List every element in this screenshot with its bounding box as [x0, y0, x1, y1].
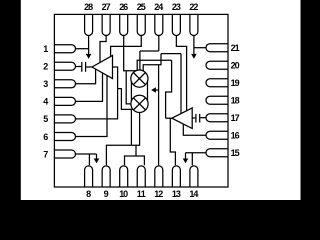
pin 22 pill: [190, 14, 198, 35]
wire pin6 to U1 bottom edge: [76, 76, 107, 137]
wire pin22 down to arrow: [193, 36, 195, 55]
arrow head down near pin8: [94, 159, 100, 164]
pin 18 pill: [206, 96, 228, 104]
svg-text:6: 6: [43, 132, 48, 142]
wire pin7 run with branch to pin8: [76, 154, 97, 165]
wire pin3 to U1 bottom edge: [76, 69, 96, 84]
svg-text:20: 20: [231, 61, 240, 71]
pin 20 pill: [206, 61, 228, 69]
pin 23 pill: [172, 14, 180, 35]
wire pin24 net to M1 top and U2 top: [140, 36, 181, 114]
svg-text:18: 18: [231, 96, 240, 106]
wire branch pin26 to M2 left: [126, 71, 131, 104]
svg-text:16: 16: [231, 131, 240, 141]
wire M2 bottom to pin9: [106, 113, 139, 166]
mixer M2 circle: [131, 95, 148, 112]
wire ladder connector: [135, 145, 137, 156]
pin 8 pill: [85, 166, 93, 187]
pin 26 pill: [120, 14, 128, 35]
wire pin2 to capacitor C1: [76, 66, 81, 68]
svg-text:25: 25: [137, 2, 146, 12]
wire pin4 to U1 bottom edge: [76, 73, 103, 101]
chip body outline: [54, 14, 228, 187]
svg-text:27: 27: [102, 2, 111, 12]
pin 2 pill: [54, 62, 75, 70]
svg-text:23: 23: [172, 2, 181, 12]
pin 15 pill: [206, 149, 228, 157]
svg-text:13: 13: [172, 189, 181, 199]
mixer M1 cross: [133, 73, 145, 85]
wire pin25 to U1 top corner: [111, 36, 142, 57]
svg-text:21: 21: [231, 43, 240, 53]
pin 10 pill: [120, 166, 128, 187]
svg-text:24: 24: [154, 2, 163, 12]
capacitor C2 wire from U2 right edge: [192, 117, 195, 119]
pin 28 pill: [85, 14, 93, 35]
mixer M1 circle: [131, 70, 148, 87]
wire C2 to pin17: [200, 117, 206, 119]
svg-text:4: 4: [43, 97, 48, 107]
pin 21 pill: [206, 44, 228, 52]
wire pin15 run with branch to pin14: [186, 153, 207, 166]
op-amp U1 (left amplifier, points left): [92, 55, 113, 78]
wire pin23 to U2 top edge: [176, 36, 186, 111]
wire U2 bottom edge to pin16: [183, 124, 206, 135]
svg-text:26: 26: [119, 2, 128, 12]
pin 3 pill: [54, 80, 75, 88]
pin 13 pill: [172, 166, 180, 187]
mixer tangent right: [147, 82, 149, 101]
wire branch to mixer M2 left lower: [118, 89, 133, 110]
svg-text:11: 11: [137, 189, 146, 199]
svg-text:1: 1: [43, 44, 48, 54]
wire C1 to amp U1 apex: [86, 66, 92, 68]
svg-text:2: 2: [43, 62, 48, 72]
mixer M2 cross: [133, 98, 145, 110]
wire pin26 to M1 left: [124, 36, 136, 71]
svg-text:28: 28: [84, 2, 93, 12]
capacitor C1 plates: [82, 62, 86, 72]
svg-text:15: 15: [231, 148, 240, 158]
pin 5 pill: [54, 115, 75, 123]
wire pin27 to U1 top edge: [100, 36, 106, 63]
wire U2 apex loop to M1 top left: [137, 60, 171, 118]
svg-text:10: 10: [119, 189, 128, 199]
svg-text:22: 22: [189, 2, 198, 12]
pin 14 pill: [190, 166, 198, 187]
pin 1 pill: [54, 45, 75, 53]
wire U2 apex down to pin13: [170, 118, 175, 165]
pin 25 pill: [137, 14, 145, 35]
arrow head down near pin14: [183, 159, 189, 164]
pin 27 pill: [102, 14, 110, 35]
arrow head input right (pins 21/22): [191, 54, 197, 59]
pin 24 pill: [155, 14, 163, 35]
wire pin21 to node B: [194, 47, 206, 49]
op-amp U2 (right amplifier, points left): [172, 108, 192, 129]
wire arrow stem near pin8: [96, 154, 98, 159]
arrow head input left (pins 1/28): [86, 54, 92, 59]
mixer tangent left: [130, 82, 132, 101]
pin 4 pill: [54, 97, 75, 105]
pin 16 pill: [206, 131, 228, 139]
wire pin28 down to arrow: [88, 36, 90, 55]
pin 12 pill: [155, 166, 163, 187]
pin 17 pill: [206, 114, 228, 122]
arrow head LO pointing left: [151, 87, 156, 92]
svg-text:17: 17: [231, 113, 240, 123]
svg-text:7: 7: [43, 149, 48, 159]
wire U2 apex stub: [166, 117, 172, 119]
svg-text:14: 14: [189, 189, 198, 199]
wire LO loop M1 top right and pin12 feeder: [143, 65, 161, 166]
wire U1 right edge to pin5: [76, 67, 118, 119]
capacitor C2 plates: [196, 114, 200, 123]
wire pin10 to pin11 ladder rung: [125, 156, 145, 165]
pin 7 pill: [54, 150, 75, 158]
svg-text:19: 19: [231, 78, 240, 88]
pin 19 pill: [206, 79, 228, 87]
pin 6 pill: [54, 132, 75, 140]
svg-text:5: 5: [43, 114, 48, 124]
svg-text:3: 3: [43, 79, 48, 89]
pin 9 pill: [102, 166, 110, 187]
svg-text:9: 9: [104, 189, 109, 199]
white content area: [21, 0, 301, 200]
wire pin1 to node A: [76, 48, 89, 50]
svg-text:12: 12: [154, 189, 163, 199]
svg-text:8: 8: [86, 189, 91, 199]
pin 11 pill: [137, 166, 145, 187]
wire riser M2 lower-left to ladder: [130, 110, 132, 145]
wire arrow stem near pin14: [185, 153, 187, 159]
